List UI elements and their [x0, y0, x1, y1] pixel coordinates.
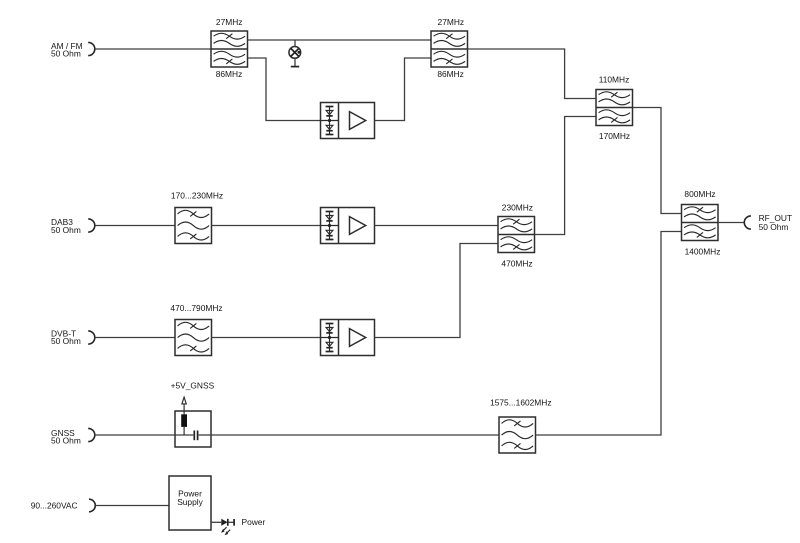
- svg-text:Supply: Supply: [177, 497, 203, 507]
- svg-text:90...260VAC: 90...260VAC: [31, 501, 78, 511]
- connector J4 GNSS: [88, 428, 95, 441]
- port DAB3 50 Ohm label: [51, 217, 81, 235]
- svg-text:50 Ohm: 50 Ohm: [51, 49, 81, 59]
- wire F8 out to RF_OUT: [718, 222, 744, 224]
- svg-text:86MHz: 86MHz: [216, 69, 243, 79]
- connector J6 mains: [89, 499, 95, 512]
- connector J5 RF_OUT: [744, 216, 751, 229]
- wire F2 out to F3 top in: [468, 49, 597, 99]
- filter F3 110/170MHz combiner: [596, 90, 633, 126]
- filter F2 27/86MHz combiner: [431, 31, 468, 67]
- svg-text:1400MHz: 1400MHz: [685, 246, 721, 256]
- wire A1 out to F2 bottom in: [375, 58, 432, 121]
- svg-text:470MHz: 470MHz: [501, 258, 532, 268]
- filter F6 470...790MHz: [175, 320, 212, 356]
- svg-text:86MHz: 86MHz: [437, 69, 464, 79]
- wire F1 top out to F2 top in: [248, 39, 432, 41]
- amplifier A3: [321, 320, 375, 356]
- svg-text:50 Ohm: 50 Ohm: [759, 222, 789, 232]
- svg-text:27MHz: 27MHz: [216, 17, 243, 27]
- power supply PS1: [169, 476, 211, 530]
- wire J2 to F4: [95, 225, 175, 227]
- label 86MHz (F2): [437, 69, 464, 79]
- label 86MHz (F1): [216, 69, 243, 79]
- label 27MHz (F2): [438, 17, 465, 27]
- wire F1 bottom out to A1: [248, 58, 321, 121]
- label Power: [242, 517, 266, 527]
- svg-text:50 Ohm: 50 Ohm: [51, 336, 81, 346]
- +5V_GNSS supply arrow: [182, 397, 186, 414]
- svg-text:110MHz: 110MHz: [599, 75, 630, 85]
- filter F1 27/86MHz diplexer: [211, 31, 248, 67]
- wire F7 out to F8 bottom in: [536, 232, 682, 436]
- svg-text:230MHz: 230MHz: [502, 203, 533, 213]
- svg-text:50 Ohm: 50 Ohm: [51, 225, 81, 235]
- port 90...260VAC label: [31, 501, 78, 511]
- connector J2 DAB3: [88, 219, 95, 232]
- label 1400MHz: [685, 246, 721, 256]
- wire J1 to F1: [95, 48, 211, 50]
- wire F3 out to F8 top in: [633, 108, 682, 214]
- label 110MHz: [599, 75, 630, 85]
- bias tee U1: [175, 411, 211, 447]
- label 470...790MHz: [170, 303, 222, 313]
- svg-text:800MHz: 800MHz: [684, 189, 715, 199]
- wire F4 to A2: [212, 225, 321, 227]
- svg-text:27MHz: 27MHz: [438, 17, 465, 27]
- amplifier A1: [321, 103, 375, 139]
- svg-text:50 Ohm: 50 Ohm: [51, 435, 81, 445]
- svg-text:470...790MHz: 470...790MHz: [170, 303, 222, 313]
- label 170...230MHz: [171, 190, 223, 200]
- svg-text:170...230MHz: 170...230MHz: [171, 190, 223, 200]
- filter F4 170...230MHz: [175, 208, 212, 244]
- filter F8 800/1400MHz combiner: [682, 205, 719, 241]
- port RF_OUT 50 Ohm label: [759, 213, 793, 232]
- wire J6 to power supply: [95, 505, 169, 507]
- LED D1: [221, 519, 234, 535]
- wire A2 to F5 top in: [375, 225, 499, 227]
- svg-text:170MHz: 170MHz: [599, 131, 630, 141]
- label 230MHz: [502, 203, 533, 213]
- label +5V_GNSS: [171, 381, 215, 391]
- wire A3 to F5 bottom in: [375, 244, 499, 338]
- port DVB-T 50 Ohm label: [51, 328, 81, 346]
- connector J3 DVB-T: [88, 331, 95, 344]
- label 27MHz (F1): [216, 17, 243, 27]
- wire J3 to F6: [95, 337, 175, 339]
- label Power Supply: [177, 489, 203, 508]
- svg-text:Power: Power: [242, 517, 266, 527]
- amplifier A2: [321, 208, 375, 244]
- label 800MHz: [684, 189, 715, 199]
- svg-text:+5V_GNSS: +5V_GNSS: [171, 381, 215, 391]
- filter F7 1575...1602MHz: [499, 417, 536, 453]
- wire lamp tap: [294, 40, 296, 47]
- port AM/FM 50 Ohm label: [51, 41, 83, 59]
- ground: [291, 66, 299, 68]
- label 470MHz: [501, 258, 532, 268]
- wire F5 out to F3 bottom in: [535, 117, 597, 235]
- label 1575...1602MHz: [490, 397, 551, 407]
- wire bias tee to F7: [211, 434, 499, 436]
- wire PS1 to LED: [211, 521, 221, 523]
- lamp DS1: [289, 47, 301, 59]
- connector J1 AM/FM: [88, 42, 95, 55]
- wire F6 to A3: [212, 337, 321, 339]
- label 170MHz: [599, 131, 630, 141]
- wire J4 to bias tee: [95, 434, 175, 436]
- port GNSS 50 Ohm label: [51, 428, 81, 445]
- filter F5 230/470MHz combiner: [498, 217, 535, 253]
- wire lamp to ground: [294, 58, 296, 66]
- svg-text:1575...1602MHz: 1575...1602MHz: [490, 397, 551, 407]
